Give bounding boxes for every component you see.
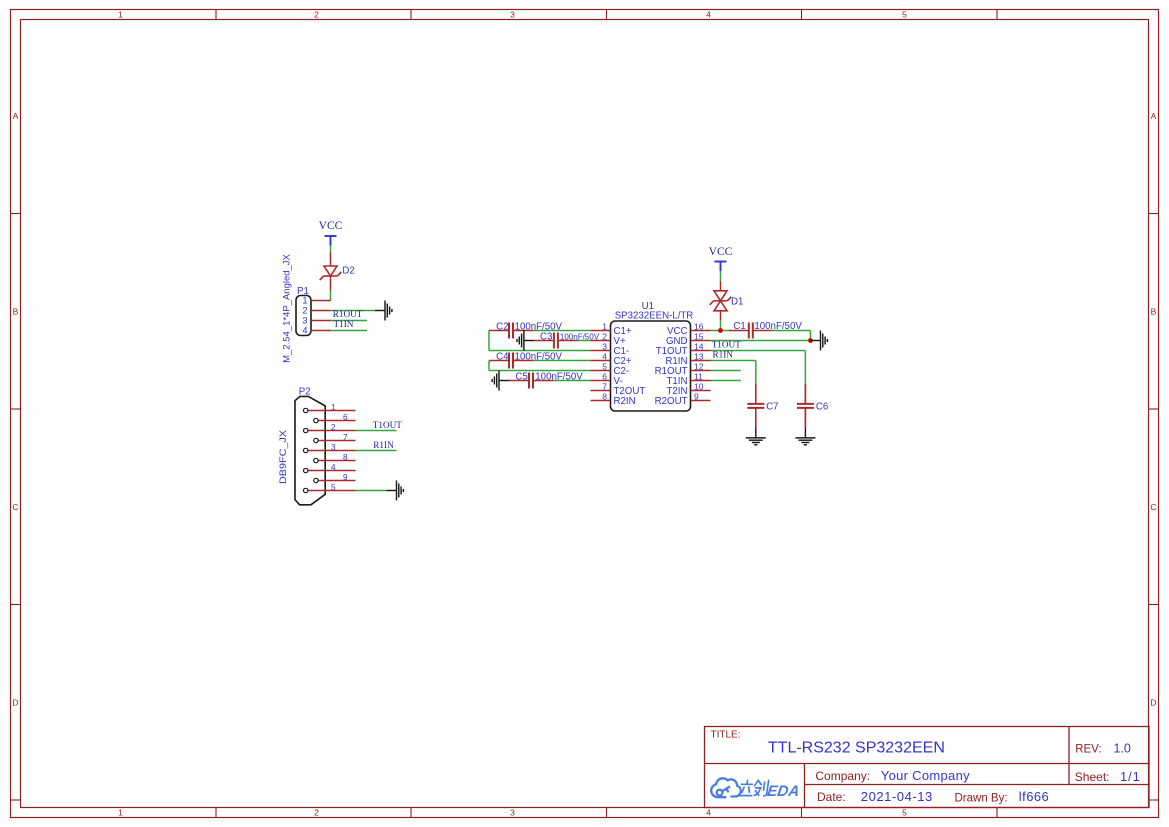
- wire D1 to VCC node: [720, 320, 722, 331]
- svg-text:7: 7: [343, 433, 348, 442]
- svg-text:R1IN: R1IN: [713, 350, 734, 360]
- svg-text:1: 1: [602, 321, 607, 331]
- svg-text:7: 7: [602, 381, 607, 391]
- frame row letters: [12, 111, 1156, 708]
- svg-text:EDA: EDA: [766, 783, 800, 800]
- wire U1 pin16 to C1: [711, 330, 731, 332]
- frame row ticks: [11, 214, 1159, 801]
- svg-text:2: 2: [314, 808, 319, 818]
- wire C3 to U1 pin2: [578, 340, 591, 342]
- svg-text:5: 5: [331, 483, 336, 492]
- svg-text:M_2.54_1*4P_Angled_JX: M_2.54_1*4P_Angled_JX: [282, 253, 293, 362]
- svg-text:R1OUT: R1OUT: [333, 309, 363, 319]
- ground (C5): [492, 371, 509, 391]
- wire net T1OUT (U1 pin14): [711, 350, 806, 352]
- P1 pin stubs 1-4: [311, 301, 331, 331]
- ground (C3): [517, 331, 534, 351]
- diode D2 (TVS): [320, 266, 342, 280]
- svg-text:C6: C6: [816, 401, 828, 412]
- wire VCC to D1: [720, 271, 722, 282]
- junction dot (VCC node): [718, 328, 723, 333]
- pin wire D1 bottom: [720, 311, 722, 320]
- wire net R1IN (P2 pin3): [356, 450, 397, 452]
- svg-text:R2IN: R2IN: [614, 396, 636, 407]
- U1 pin numbers: [602, 321, 703, 401]
- svg-text:2: 2: [331, 423, 336, 432]
- svg-text:1: 1: [331, 403, 336, 412]
- wire C2 to U1 pin1: [533, 330, 591, 332]
- P2 pin holes: [304, 408, 319, 492]
- pin wire C6 bottom: [804, 408, 806, 428]
- capacitor C5: [509, 373, 553, 389]
- svg-text:B: B: [1151, 307, 1157, 317]
- U1 pin stubs: [591, 331, 711, 401]
- svg-text:3: 3: [602, 341, 607, 351]
- wire net R1IN (U1 pin13): [711, 360, 756, 362]
- svg-text:4: 4: [706, 808, 711, 818]
- frame column ticks: [216, 10, 997, 818]
- svg-text:Date:: Date:: [817, 790, 846, 804]
- pin wire D1 top: [720, 282, 722, 291]
- svg-text:T1OUT: T1OUT: [373, 420, 402, 430]
- svg-text:2: 2: [314, 10, 319, 20]
- wire to U1 pin3 C1-: [489, 350, 591, 352]
- svg-text:C: C: [1150, 502, 1156, 512]
- svg-text:6: 6: [602, 371, 607, 381]
- svg-text:lf666: lf666: [1019, 789, 1049, 804]
- svg-text:14: 14: [694, 341, 704, 351]
- svg-text:D1: D1: [731, 297, 743, 308]
- svg-text:D: D: [1150, 698, 1156, 708]
- svg-text:A: A: [1151, 111, 1157, 121]
- wire C5 to U1 pin6: [553, 380, 591, 382]
- svg-text:VCC: VCC: [319, 219, 343, 232]
- wire to U1 pin5 C2-: [489, 370, 591, 372]
- svg-text:11: 11: [694, 371, 703, 381]
- pin wire C6 top: [804, 386, 806, 404]
- pin wire C7 bottom: [755, 408, 757, 428]
- junction dot (GND node): [808, 338, 813, 343]
- wire T1OUT vertical to C6: [804, 351, 806, 386]
- svg-text:C2: C2: [496, 322, 508, 333]
- svg-text:16: 16: [694, 321, 704, 331]
- svg-text:1: 1: [118, 10, 123, 20]
- title block frame: [705, 727, 1150, 808]
- svg-text:SP3232EEN-L/TR: SP3232EEN-L/TR: [615, 310, 694, 321]
- capacitor C7: [747, 384, 764, 428]
- svg-text:R2OUT: R2OUT: [655, 396, 688, 407]
- schematic content (half-pixel alignment): [278, 219, 828, 505]
- svg-text:T1OUT: T1OUT: [712, 340, 741, 350]
- svg-text:1: 1: [118, 808, 123, 818]
- svg-text:8: 8: [602, 391, 607, 401]
- svg-text:TITLE:: TITLE:: [711, 730, 741, 741]
- svg-text:5: 5: [602, 361, 607, 371]
- svg-text:C: C: [12, 502, 18, 512]
- svg-text:Company:: Company:: [815, 769, 870, 783]
- svg-text:A: A: [13, 111, 19, 121]
- svg-text:Your Company: Your Company: [881, 768, 970, 783]
- wire U1 pin15 GND: [711, 340, 811, 342]
- pin wire D2 bottom: [330, 276, 332, 291]
- P2 pin numbers: [331, 403, 348, 492]
- svg-text:5: 5: [902, 808, 907, 818]
- logo text li chuang EDA: [738, 780, 768, 796]
- svg-text:2021-04-13: 2021-04-13: [861, 789, 933, 804]
- power symbol VCC (P1): [325, 236, 337, 246]
- wire net T1IN (U1 pin11): [711, 380, 741, 382]
- svg-text:1.0: 1.0: [1114, 742, 1131, 756]
- wire R1IN vertical to C7: [755, 361, 757, 386]
- capacitor C4: [489, 353, 533, 369]
- svg-text:C1: C1: [733, 321, 745, 332]
- svg-text:1: 1: [302, 295, 307, 305]
- svg-text:Sheet:: Sheet:: [1075, 770, 1110, 784]
- connector P2 body (DB9): [295, 396, 325, 504]
- connector P1 body: [296, 296, 311, 336]
- ground (C7): [746, 428, 766, 445]
- svg-text:1/1: 1/1: [1120, 769, 1141, 784]
- P2 pin stubs: [306, 411, 356, 491]
- svg-text:4: 4: [602, 351, 607, 361]
- wire net R1OUT (U1 pin12): [711, 370, 741, 372]
- wire C1 to GND net corner: [771, 330, 811, 332]
- svg-text:2: 2: [302, 305, 307, 315]
- capacitor C3: [534, 333, 578, 349]
- wire C4 left vertical: [488, 361, 490, 371]
- svg-text:8: 8: [343, 453, 348, 462]
- svg-text:D2: D2: [342, 266, 354, 277]
- svg-text:4: 4: [706, 10, 711, 20]
- logo EasyEDA cloud: [711, 778, 741, 797]
- pin wire D2 top: [330, 252, 332, 266]
- svg-text:13: 13: [694, 351, 704, 361]
- power symbol VCC (D1): [715, 262, 727, 272]
- pin wire C7 top: [755, 386, 757, 404]
- wire P1 pin2 to ground: [331, 310, 376, 312]
- capacitor C2: [489, 323, 533, 339]
- svg-text:C7: C7: [766, 401, 778, 412]
- svg-text:VCC: VCC: [709, 245, 733, 258]
- svg-text:15: 15: [694, 331, 704, 341]
- ground (C6): [795, 428, 815, 445]
- svg-text:C3: C3: [540, 332, 552, 343]
- svg-text:R1IN: R1IN: [373, 440, 394, 450]
- P1 pin names 1-4: [302, 295, 307, 335]
- svg-text:3: 3: [510, 808, 515, 818]
- wire VCC to D2: [330, 246, 332, 253]
- wire net R1OUT (P1 pin3): [331, 320, 368, 322]
- capacitor C1: [729, 323, 773, 339]
- wire D2 to P1 pin1: [330, 291, 332, 302]
- U1 pin names: [614, 326, 688, 407]
- svg-text:6: 6: [343, 413, 348, 422]
- wire GND net vertical: [810, 331, 812, 341]
- IC U1 body: [611, 321, 691, 411]
- svg-text:9: 9: [343, 473, 348, 482]
- svg-text:T1IN: T1IN: [334, 319, 354, 329]
- svg-text:Drawn By:: Drawn By:: [955, 793, 1008, 805]
- ground (P2 pin5): [387, 481, 404, 501]
- svg-text:C5: C5: [515, 372, 527, 383]
- frame column numbers: [118, 10, 907, 818]
- wire net T1IN (P1 pin4): [331, 330, 368, 332]
- wire P2 pin5 to ground: [356, 490, 387, 492]
- svg-text:2: 2: [602, 331, 607, 341]
- svg-text:B: B: [13, 307, 19, 317]
- wire C4 to U1 pin4: [533, 360, 591, 362]
- ground (P1 pin2): [375, 301, 392, 321]
- svg-text:4: 4: [331, 463, 336, 472]
- wire net T1OUT (P2 pin2): [356, 430, 397, 432]
- svg-text:P2: P2: [299, 387, 311, 398]
- svg-text:3: 3: [510, 10, 515, 20]
- svg-text:12: 12: [694, 361, 704, 371]
- svg-text:C4: C4: [496, 352, 509, 363]
- capacitor C6: [797, 384, 814, 428]
- svg-text:DB9FC_JX: DB9FC_JX: [278, 429, 289, 484]
- svg-text:TTL-RS232 SP3232EEN: TTL-RS232 SP3232EEN: [768, 740, 945, 757]
- svg-text:5: 5: [902, 10, 907, 20]
- wire C2 left vertical: [488, 331, 490, 351]
- svg-text:3: 3: [331, 443, 336, 452]
- svg-text:REV:: REV:: [1075, 744, 1101, 756]
- svg-text:D: D: [12, 698, 18, 708]
- svg-text:4: 4: [302, 325, 307, 335]
- svg-text:9: 9: [694, 391, 699, 401]
- svg-text:3: 3: [302, 315, 307, 325]
- ground (GND net): [811, 331, 828, 351]
- diode D1 (bidirectional TVS): [710, 291, 732, 311]
- svg-text:10: 10: [694, 381, 704, 391]
